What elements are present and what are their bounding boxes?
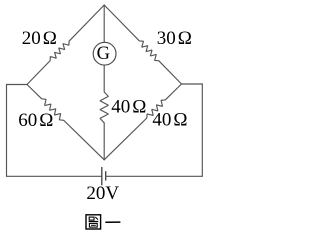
resistor R4 40ohm bottom-right arm <box>104 84 181 160</box>
resistor R3 60ohm bottom-left arm <box>27 85 104 160</box>
svg-text:40Ω: 40Ω <box>152 110 187 131</box>
galvanometer U1 G <box>93 42 116 65</box>
wire bottom right <box>106 175 203 177</box>
wire right stub <box>182 83 203 85</box>
svg-text:40Ω: 40Ω <box>111 97 146 118</box>
svg-text:20V: 20V <box>86 183 119 204</box>
wire left wall <box>6 85 8 177</box>
caption figure-one glyph TU (圖) <box>86 215 101 229</box>
battery BT1 20V short plate <box>105 171 107 180</box>
svg-text:G: G <box>97 44 110 64</box>
wire top vertex to galvanometer <box>103 5 105 42</box>
svg-text:20Ω: 20Ω <box>22 28 57 49</box>
resistor R2 30ohm top-right arm <box>104 5 181 84</box>
resistor R5 40ohm middle branch <box>100 65 108 160</box>
wire bottom left <box>7 175 102 177</box>
wire right wall <box>201 84 203 176</box>
svg-text:60Ω: 60Ω <box>18 110 53 131</box>
battery BT1 20V long plate <box>101 167 103 185</box>
resistor R1 20ohm top-left arm <box>27 5 104 85</box>
svg-text:30Ω: 30Ω <box>157 28 192 49</box>
caption figure-one glyph YI (一) <box>106 221 120 223</box>
wire left stub <box>7 84 28 86</box>
